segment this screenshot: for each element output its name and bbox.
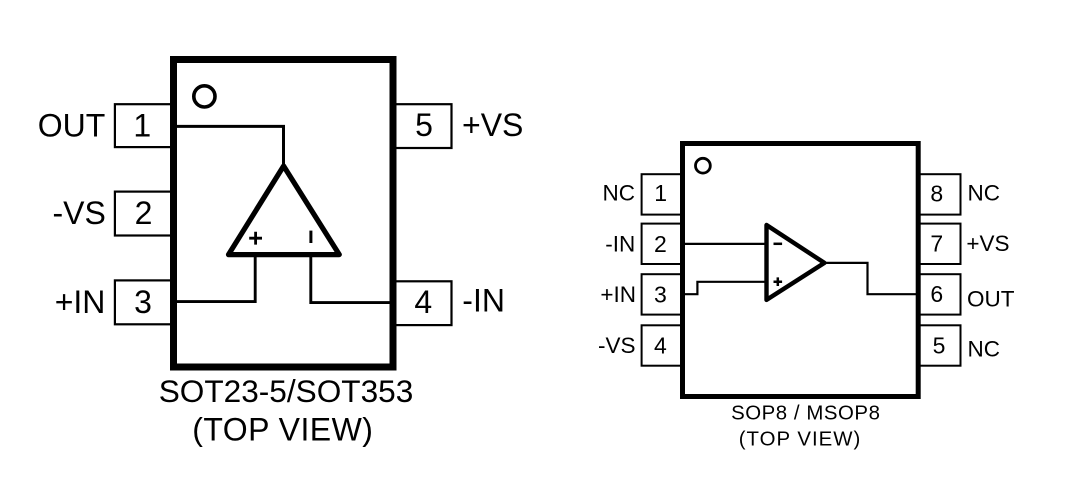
wire pin3 +IN to op-amp non-inverting input (with jog): [684, 282, 766, 294]
svg-text:7: 7: [930, 231, 943, 257]
svg-text:8: 8: [930, 180, 943, 206]
svg-text:+IN: +IN: [600, 282, 636, 307]
svg-text:+VS: +VS: [966, 231, 1009, 256]
svg-text:SOT23-5/SOT353: SOT23-5/SOT353: [159, 373, 414, 409]
op-amp U2 triangle (SOP8, pointing right): [767, 225, 825, 300]
SOT23-5 package body: [174, 60, 394, 368]
svg-text:2: 2: [654, 231, 667, 257]
svg-text:2: 2: [135, 195, 153, 231]
SOP8 package body: [683, 144, 919, 397]
svg-text:3: 3: [134, 284, 152, 320]
pin box 1 (SOP8 pin 1): [642, 174, 684, 214]
svg-text:-VS: -VS: [52, 195, 105, 231]
pin box 4 (SOT23-5 pin 4): [392, 281, 452, 325]
svg-text:OUT: OUT: [38, 107, 106, 143]
svg-text:4: 4: [654, 332, 667, 358]
svg-text:NC: NC: [968, 337, 1001, 362]
svg-text:5: 5: [933, 332, 946, 358]
svg-text:+IN: +IN: [55, 284, 106, 320]
pin box 6 (SOP8 pin 6): [918, 274, 961, 314]
svg-text:1: 1: [133, 107, 151, 143]
svg-text:-IN: -IN: [462, 282, 505, 318]
wire pin1 OUT to op-amp output: [172, 126, 284, 166]
op-amp U2 plus mark: [774, 277, 783, 286]
wire pin2 -IN to op-amp inverting input: [684, 243, 766, 245]
op-amp U1 triangle (SOT23-5, pointing up): [229, 166, 340, 255]
pin box 5 (SOT23-5 pin 5): [392, 104, 452, 148]
svg-text:5: 5: [415, 107, 433, 143]
pin box 3 (SOT23-5 pin 3): [115, 280, 175, 324]
op-amp U2 minus mark: [774, 243, 783, 246]
svg-text:6: 6: [930, 281, 943, 307]
pin box 2 (SOP8 pin 2): [642, 224, 684, 264]
SOP8 pin1 indicator circle: [696, 158, 711, 173]
svg-text:3: 3: [654, 281, 667, 307]
svg-text:-VS: -VS: [598, 333, 636, 358]
SOT23-5 pin1 indicator circle: [194, 86, 215, 107]
pin box 5 (SOP8 pin 5): [918, 325, 961, 365]
svg-text:(TOP VIEW): (TOP VIEW): [739, 428, 862, 450]
op-amp U1 minus mark (rotated): [309, 231, 312, 243]
svg-text:NC: NC: [968, 180, 1001, 205]
svg-text:(TOP VIEW): (TOP VIEW): [192, 412, 373, 448]
svg-text:OUT: OUT: [967, 287, 1015, 312]
pin box 1 (SOT23-5 pin 1): [115, 104, 175, 147]
wire op-amp output to pin6 OUT: [823, 263, 918, 294]
wire pin4 -IN to op-amp inverting input: [311, 253, 396, 303]
svg-text:NC: NC: [603, 180, 636, 205]
wire pin3 +IN to op-amp non-inverting input: [172, 253, 255, 302]
svg-text:SOP8 / MSOP8: SOP8 / MSOP8: [731, 403, 880, 425]
svg-text:+VS: +VS: [462, 107, 523, 143]
pin box 8 (SOP8 pin 8): [918, 174, 961, 214]
svg-text:4: 4: [414, 284, 432, 320]
pin box 3 (SOP8 pin 3): [642, 274, 684, 314]
pin box 7 (SOP8 pin 7): [918, 224, 961, 264]
svg-text:-IN: -IN: [605, 232, 635, 257]
pin box 4 (SOP8 pin 4): [642, 325, 684, 365]
op-amp U1 plus mark: [249, 232, 262, 245]
svg-text:1: 1: [654, 180, 667, 206]
pin box 2 (SOT23-5 pin 2): [115, 192, 175, 236]
